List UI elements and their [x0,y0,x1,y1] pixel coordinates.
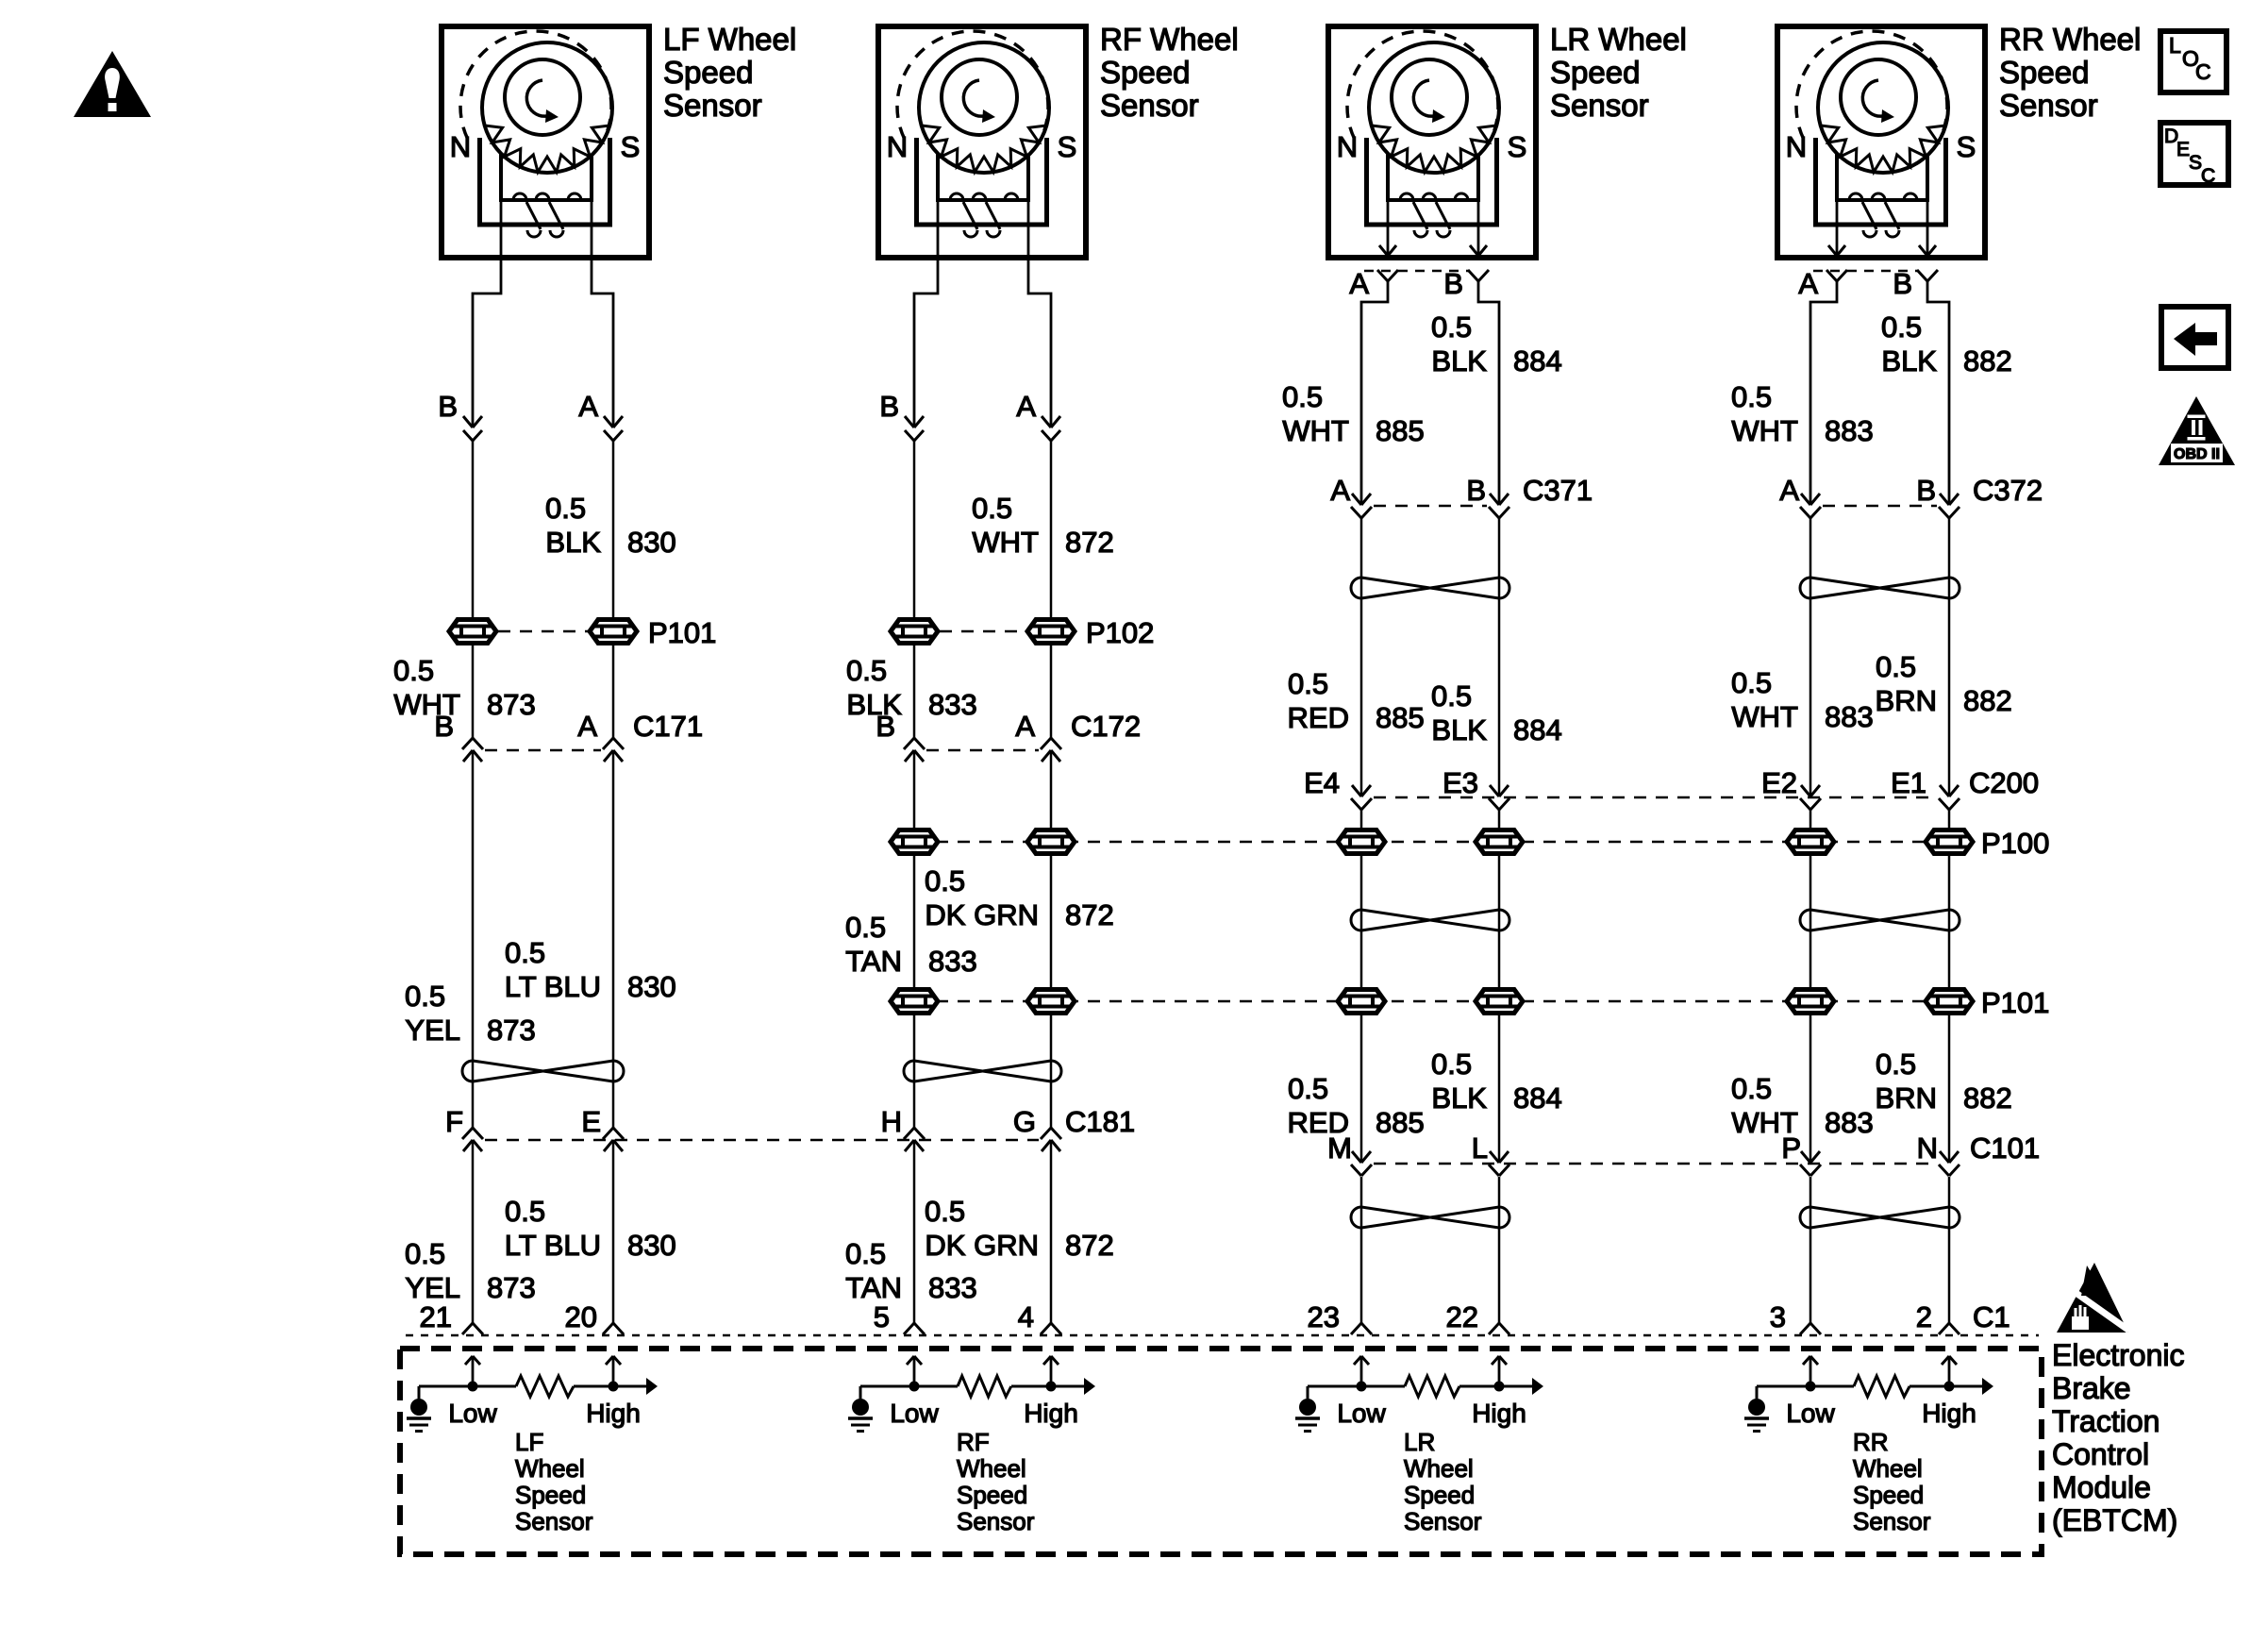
svg-text:A: A [1779,474,1799,507]
svg-text:3: 3 [1770,1300,1786,1333]
svg-text:833: 833 [928,945,977,978]
connector C172 [876,710,1141,762]
wire label 0.5 LT BLU 830 (lower) [505,1195,676,1262]
svg-text:883: 883 [1825,1106,1874,1139]
svg-text:A: A [578,390,598,423]
wire label 0.5 WHT 872 [972,492,1114,559]
svg-text:885: 885 [1376,1106,1425,1139]
wire 872 segment C172 to C181 [1050,750,1053,1128]
svg-text:Speed: Speed [663,55,753,90]
EBTCM internal LF wheel speed sensor circuit (ground, Low, resistor, High) [407,1356,658,1535]
svg-text:5: 5 [874,1300,890,1333]
LF pigtail connector terminals B / A [438,390,623,441]
wire 830 segment C171 to C181 [612,750,615,1128]
svg-text:0.5: 0.5 [1876,650,1916,683]
wire 883 segment C372 to C200 [1809,518,1812,796]
svg-text:RR Wheel: RR Wheel [1999,22,2141,57]
svg-text:High: High [1472,1399,1526,1428]
svg-text:N: N [1786,130,1807,163]
wire 830 (LF sensor pin A) upper segment [592,260,613,427]
wire 873 (LF sensor pin B) upper segment [473,260,501,427]
svg-text:LF: LF [515,1428,543,1456]
svg-text:Sensor: Sensor [957,1507,1035,1535]
wire 883 segment C200 to C101 [1809,810,1812,1163]
svg-text:F: F [445,1105,463,1138]
wire 885 segment C200 to C101 [1360,810,1363,1163]
svg-text:RF: RF [957,1428,990,1456]
label: LF Wheel Speed Sensor [663,22,796,123]
svg-text:BRN: BRN [1876,1081,1937,1115]
svg-text:0.5: 0.5 [405,980,445,1013]
svg-text:0.5: 0.5 [845,1237,886,1270]
svg-text:833: 833 [928,688,977,721]
svg-text:Wheel: Wheel [1404,1454,1474,1483]
svg-text:833: 833 [928,1271,977,1304]
svg-text:B: B [879,390,899,423]
svg-text:0.5: 0.5 [1282,380,1323,413]
svg-text:872: 872 [1065,898,1114,931]
svg-text:882: 882 [1963,684,2012,717]
svg-text:LR Wheel: LR Wheel [1550,22,1687,57]
svg-text:E4: E4 [1304,766,1340,799]
wire label 0.5 BLK 830 [545,492,676,559]
svg-text:Speed: Speed [1999,55,2089,90]
svg-text:873: 873 [487,1014,536,1047]
svg-text:0.5: 0.5 [505,1195,545,1228]
wire label 0.5 BLK 882 [1881,310,2012,377]
wire label 0.5 BLK 833 [846,654,977,721]
twisted pair (RR lower) [1800,1207,1959,1228]
svg-text:P101: P101 [1981,986,2049,1019]
svg-text:830: 830 [627,970,676,1003]
svg-text:L: L [1472,1131,1488,1165]
twisted pair (RR middle) [1800,910,1959,930]
svg-text:LT BLU: LT BLU [505,970,601,1003]
svg-text:884: 884 [1513,344,1562,377]
wire 833 segment C172 to C181 [913,750,916,1128]
wire label 0.5 BLK 884 (lower) [1431,1048,1562,1115]
wire 883 (RR pin A) upper segment [1810,281,1837,505]
svg-text:23: 23 [1308,1300,1340,1333]
svg-text:0.5: 0.5 [1431,310,1472,344]
svg-text:B: B [876,710,895,743]
wire label 0.5 RED 885 (lower) [1288,1072,1425,1139]
svg-text:C372: C372 [1973,474,2043,507]
ESD warning symbol [2057,1263,2129,1333]
svg-text:A: A [1349,267,1369,300]
LR wires M / L pin labels [1327,1131,1488,1165]
wire label 0.5 WHT 883 (lower) [1731,1072,1874,1139]
wire 882 segment C200 to C101 [1948,810,1951,1163]
connector C101 [1351,1131,2040,1176]
svg-text:P102: P102 [1086,616,1154,649]
svg-text:P: P [1781,1131,1801,1165]
pass-through grommet row P100 [891,827,2049,860]
EBTCM internal RF wheel speed sensor circuit (ground, Low, resistor, High) [848,1356,1095,1535]
svg-text:B: B [1916,474,1936,507]
wire label 0.5 TAN 833 (lower) [845,1237,977,1304]
RR wires P / N pin labels [1781,1131,1938,1165]
svg-text:BLK: BLK [1431,344,1487,377]
svg-text:LR: LR [1404,1428,1435,1456]
wire 873 segment C181 to EBTCM pin 21 [472,1140,475,1323]
svg-text:Low: Low [1786,1399,1835,1428]
svg-text:L: L [2169,33,2181,58]
svg-text:P101: P101 [648,616,716,649]
RR wires E2 / E1 pin labels [1761,766,1926,799]
connector C181 [445,1105,1135,1151]
wire label 0.5 YEL 873 (lower) [405,1237,536,1304]
twisted pair (LR upper) [1351,578,1509,598]
svg-text:Speed: Speed [515,1481,586,1509]
label: LR Wheel Speed Sensor [1550,22,1687,123]
EBTCM internal LR wheel speed sensor circuit (ground, Low, resistor, High) [1295,1356,1543,1535]
svg-text:873: 873 [487,1271,536,1304]
svg-text:Wheel: Wheel [957,1454,1026,1483]
svg-text:Electronic: Electronic [2052,1338,2185,1372]
svg-text:S: S [621,130,641,163]
svg-text:Speed: Speed [1853,1481,1924,1509]
svg-text:E: E [2176,139,2190,160]
svg-text:B: B [1893,267,1912,300]
wire label 0.5 LT BLU 830 [505,936,676,1003]
svg-text:0.5: 0.5 [393,654,434,687]
svg-text:0.5: 0.5 [1731,666,1772,699]
svg-text:BRN: BRN [1876,684,1937,717]
svg-text:C1: C1 [1973,1300,2010,1333]
svg-text:A: A [1015,710,1035,743]
svg-text:0.5: 0.5 [1288,1072,1328,1105]
twisted pair (LR lower) [1351,1207,1509,1228]
wire 883 segment C101 to EBTCM pin 3 [1809,1177,1812,1323]
svg-text:B: B [1466,474,1486,507]
svg-text:BLK: BLK [545,526,601,559]
svg-text:WHT: WHT [1282,414,1349,447]
wire label 0.5 RED 885 [1288,667,1425,734]
twisted pair (LR middle) [1351,910,1509,930]
svg-text:C: C [2195,59,2211,84]
svg-text:0.5: 0.5 [1876,1048,1916,1081]
connector C372 [1779,474,2043,518]
svg-text:DK GRN: DK GRN [925,1229,1039,1262]
svg-text:E: E [581,1105,601,1138]
svg-text:LF Wheel: LF Wheel [663,22,796,57]
svg-text:885: 885 [1376,414,1425,447]
svg-text:N: N [1337,130,1358,163]
svg-text:WHT: WHT [1731,700,1798,733]
svg-text:A: A [577,710,597,743]
back-arrow icon box [2161,307,2228,368]
svg-text:Sensor: Sensor [515,1507,593,1535]
svg-text:884: 884 [1513,713,1562,746]
svg-text:C: C [2201,165,2215,187]
svg-text:S: S [1957,130,1976,163]
wire 885 segment C101 to EBTCM pin 23 [1360,1177,1363,1323]
svg-text:872: 872 [1065,1229,1114,1262]
svg-text:0.5: 0.5 [846,654,887,687]
svg-text:High: High [586,1399,641,1428]
svg-text:C171: C171 [633,710,703,743]
svg-text:Module: Module [2052,1470,2151,1504]
grommet P102 (RF) [891,616,1154,649]
svg-text:S: S [2189,152,2202,174]
wire label 0.5 DK GRN 872 [925,864,1114,931]
svg-text:B: B [434,710,454,743]
svg-text:Control: Control [2052,1437,2149,1471]
svg-text:4: 4 [1018,1300,1034,1333]
connector C1 (EBTCM) [406,1300,2039,1335]
grommet P101 (LF) [449,616,716,649]
svg-text:0.5: 0.5 [1731,380,1772,413]
svg-text:High: High [1922,1399,1976,1428]
svg-text:Wheel: Wheel [1853,1454,1923,1483]
wire 885 segment C371 to C200 [1360,518,1363,796]
LOC icon box [2160,31,2226,92]
svg-text:Sensor: Sensor [1853,1507,1931,1535]
LR sensor harness connector (A/B) [1349,267,1489,300]
twisted pair (LF) [462,1061,624,1081]
svg-text:B: B [438,390,458,423]
wire label 0.5 BLK 884 [1431,310,1562,377]
LR wheel speed sensor symbol [1328,26,1536,260]
label: RR Wheel Speed Sensor [1999,22,2141,123]
wire label 0.5 BRN 882 (mid) [1876,650,2012,717]
svg-text:830: 830 [627,526,676,559]
connector C200 [1351,766,2039,810]
svg-text:0.5: 0.5 [925,864,965,897]
twisted pair (RF) [904,1061,1061,1081]
svg-text:S: S [1058,130,1077,163]
wire label 0.5 WHT 885 [1282,380,1425,447]
pass-through grommet row P101 [891,986,2049,1019]
wire 873 segment to C171 [472,441,475,738]
svg-text:WHT: WHT [972,526,1039,559]
wire label 0.5 WHT 883 (mid) [1731,666,1874,733]
svg-text:RED: RED [1288,701,1349,734]
svg-text:Sensor: Sensor [1404,1507,1482,1535]
svg-text:TAN: TAN [845,945,902,978]
svg-text:YEL: YEL [405,1014,460,1047]
svg-text:N: N [887,130,908,163]
svg-text:Speed: Speed [957,1481,1027,1509]
svg-text:0.5: 0.5 [972,492,1012,525]
svg-text:0.5: 0.5 [405,1237,445,1270]
twisted pair (RR upper) [1800,578,1959,598]
wire 882 segment C372 to C200 [1948,518,1951,796]
wire 872 segment C181 to EBTCM pin 4 [1050,1140,1053,1323]
svg-text:C181: C181 [1065,1105,1135,1138]
svg-text:C101: C101 [1970,1131,2040,1165]
svg-text:DK GRN: DK GRN [925,898,1039,931]
svg-text:E1: E1 [1891,766,1926,799]
svg-text:0.5: 0.5 [545,492,586,525]
svg-text:Speed: Speed [1100,55,1190,90]
svg-text:0.5: 0.5 [1431,1048,1472,1081]
svg-text:Sensor: Sensor [1550,88,1649,123]
svg-text:21: 21 [420,1300,452,1333]
wire 884 segment C200 to C101 [1498,810,1501,1163]
label: RF Wheel Speed Sensor [1100,22,1239,123]
wire label 0.5 WHT 883 [1731,380,1874,447]
wire 872 (RF sensor pin A) upper segment [1028,260,1051,427]
connector C371 [1330,474,1593,518]
svg-text:TAN: TAN [845,1271,902,1304]
EBTCM internal RR wheel speed sensor circuit (ground, Low, resistor, High) [1744,1356,1993,1535]
svg-text:M: M [1327,1131,1352,1165]
wire label 0.5 BLK 884 (mid) [1431,679,1562,746]
wire 882 (RR pin B) upper segment [1927,281,1949,505]
svg-text:884: 884 [1513,1081,1562,1115]
svg-text:E3: E3 [1443,766,1478,799]
svg-text:BLK: BLK [1431,1081,1487,1115]
LF wheel speed sensor symbol [442,26,649,260]
wire label 0.5 DK GRN 872 (lower) [925,1195,1114,1262]
warning triangle icon [74,51,151,117]
svg-text:872: 872 [1065,526,1114,559]
svg-text:Low: Low [890,1399,939,1428]
svg-text:WHT: WHT [1731,414,1798,447]
svg-text:BLK: BLK [1431,713,1487,746]
svg-text:882: 882 [1963,344,2012,377]
svg-text:873: 873 [487,688,536,721]
svg-text:A: A [1798,267,1818,300]
wire label 0.5 WHT 873 [393,654,536,721]
wire 884 segment C101 to EBTCM pin 22 [1498,1177,1501,1323]
svg-text:0.5: 0.5 [1731,1072,1772,1105]
wire 833 segment C181 to EBTCM pin 5 [913,1140,916,1323]
svg-text:Brake: Brake [2052,1371,2131,1405]
svg-text:Sensor: Sensor [1100,88,1199,123]
RR sensor harness connector (A/B) [1798,267,1938,300]
svg-text:H: H [881,1105,902,1138]
svg-text:0.5: 0.5 [925,1195,965,1228]
svg-text:883: 883 [1825,700,1874,733]
svg-text:BLK: BLK [1881,344,1937,377]
wire 830 segment C181 to EBTCM pin 20 [612,1140,615,1323]
svg-text:A: A [1330,474,1350,507]
svg-text:Traction: Traction [2052,1404,2160,1438]
RF wheel speed sensor symbol [878,26,1086,260]
svg-text:882: 882 [1963,1081,2012,1115]
svg-text:C172: C172 [1071,710,1141,743]
svg-text:22: 22 [1446,1300,1478,1333]
svg-text:RF Wheel: RF Wheel [1100,22,1239,57]
svg-text:N: N [1917,1131,1938,1165]
svg-text:Wheel: Wheel [515,1454,585,1483]
wire 885 (LR pin A) upper segment [1361,281,1388,505]
svg-text:Sensor: Sensor [663,88,762,123]
svg-text:P100: P100 [1981,827,2049,860]
svg-text:(EBTCM): (EBTCM) [2052,1503,2177,1537]
svg-text:0.5: 0.5 [845,911,886,944]
label: Electronic Brake Traction Control Module (EBTCM) [2052,1338,2185,1537]
svg-text:B: B [1443,267,1463,300]
svg-text:RR: RR [1853,1428,1889,1456]
svg-text:830: 830 [627,1229,676,1262]
svg-text:C371: C371 [1523,474,1593,507]
svg-text:N: N [450,130,471,163]
connector C171 [434,710,703,762]
svg-text:2: 2 [1916,1300,1932,1333]
svg-text:YEL: YEL [405,1271,460,1304]
svg-text:0.5: 0.5 [1288,667,1328,700]
svg-text:High: High [1024,1399,1078,1428]
wire 872 segment to C172 [1050,441,1053,738]
wire 833 (RF sensor pin B) upper segment [914,260,938,427]
svg-text:G: G [1013,1105,1036,1138]
svg-text:20: 20 [565,1300,597,1333]
svg-text:885: 885 [1376,701,1425,734]
svg-text:Low: Low [1337,1399,1386,1428]
svg-text:E2: E2 [1761,766,1797,799]
svg-text:S: S [1508,130,1527,163]
RF pigtail connector terminals B / A [879,390,1060,441]
wire 884 segment C371 to C200 [1498,518,1501,796]
EBTCM module dashed box [400,1349,2042,1554]
svg-text:C200: C200 [1969,766,2039,799]
svg-text:Sensor: Sensor [1999,88,2098,123]
svg-text:A: A [1016,390,1036,423]
wire 882 segment C101 to EBTCM pin 2 [1948,1177,1951,1323]
wire label 0.5 YEL 873 [405,980,536,1047]
wire 833 segment to C172 [913,441,916,738]
svg-text:883: 883 [1825,414,1874,447]
wire label 0.5 BRN 882 (lower) [1876,1048,2012,1115]
wire 884 (LR pin B) upper segment [1478,281,1499,505]
wire label 0.5 TAN 833 [845,911,977,978]
svg-text:0.5: 0.5 [1881,310,1922,344]
svg-text:0.5: 0.5 [1431,679,1472,712]
svg-text:Low: Low [448,1399,497,1428]
svg-text:Speed: Speed [1550,55,1640,90]
RR wheel speed sensor symbol [1777,26,1985,260]
svg-text:Speed: Speed [1404,1481,1475,1509]
svg-text:LT BLU: LT BLU [505,1229,601,1262]
svg-text:OBD II: OBD II [2174,446,2220,462]
LR wires E4 / E3 pin labels [1304,766,1478,799]
wire 873 segment C171 to C181 [472,750,475,1128]
DESC icon box [2160,123,2228,187]
svg-text:0.5: 0.5 [505,936,545,969]
wire 830 segment to C171 [612,441,615,738]
OBD II icon [2159,396,2235,465]
